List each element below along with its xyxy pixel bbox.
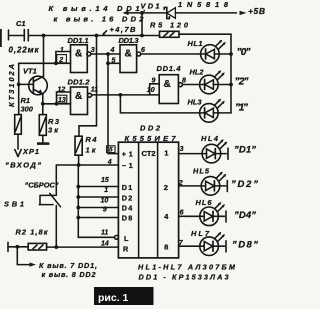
svg-text:9: 9 bbox=[152, 77, 156, 84]
annotation to pins 14 DD1 / 16 DD2 with arrow bbox=[49, 4, 146, 24]
wire DD2 out4 to HL6 bbox=[179, 215, 200, 217]
LED HL1 bbox=[188, 39, 232, 64]
wire DD1.4 pin9 tie bbox=[150, 84, 160, 95]
svg-text:300: 300 bbox=[21, 105, 34, 114]
svg-text:12: 12 bbox=[58, 86, 66, 93]
node D2 bbox=[76, 195, 80, 199]
node rail-R4 junction bbox=[95, 34, 99, 38]
wire R2/SB1 to R input bbox=[47, 246, 119, 248]
node pin5 junction bbox=[106, 61, 110, 65]
svg-text:6: 6 bbox=[180, 210, 184, 217]
svg-text:SB1: SB1 bbox=[4, 200, 24, 209]
wire to HL3 bbox=[120, 95, 199, 113]
svg-text:3к: 3к bbox=[48, 126, 59, 135]
wire DD2 out2 to HL5 bbox=[179, 185, 202, 187]
resistor R5 120 bbox=[150, 21, 189, 38]
node SB1 bottom junction bbox=[54, 245, 58, 249]
wire reset/load node to -1 input bbox=[56, 164, 118, 166]
svg-text:СТ2: СТ2 bbox=[142, 149, 156, 158]
node D8 bbox=[76, 216, 80, 220]
node pin1-pin2 tie bbox=[54, 61, 58, 65]
wire +4.7V rail bbox=[29, 35, 160, 37]
svg-text:К выв. 7 DD1,: К выв. 7 DD1, bbox=[39, 261, 97, 270]
wire base node N1 bbox=[19, 63, 71, 114]
LED HL6 bbox=[196, 198, 227, 226]
svg-text:0,22мк: 0,22мк bbox=[9, 46, 40, 55]
resistor R1 300 bbox=[15, 96, 34, 134]
svg-text:HL7: HL7 bbox=[191, 229, 210, 238]
wire DD2 out1 to HL4 bbox=[179, 153, 203, 155]
svg-text:&: & bbox=[75, 49, 82, 60]
node R2 left arm junction bbox=[15, 245, 19, 249]
svg-text:14: 14 bbox=[101, 240, 109, 247]
svg-text:HL4: HL4 bbox=[201, 134, 218, 143]
svg-text:R: R bbox=[123, 245, 129, 254]
svg-text:С1: С1 bbox=[16, 19, 26, 28]
svg-text:DD1.3: DD1.3 bbox=[119, 36, 140, 45]
capacitor C1 bbox=[9, 19, 40, 55]
svg-text:”D1”: ”D1” bbox=[234, 145, 256, 156]
node diode wire junction bbox=[140, 11, 144, 15]
svg-text:3: 3 bbox=[91, 47, 95, 54]
transistor VT1 КТ3102А bbox=[7, 64, 47, 107]
wire rail to R4 (pull-up branch) bbox=[79, 36, 97, 137]
node rail-diode junction bbox=[140, 34, 144, 38]
scan edge mark bbox=[0, 29, 2, 47]
gate DD1.4 (NAND) bbox=[147, 64, 186, 104]
node rail-collector junction bbox=[42, 34, 46, 38]
svg-text:2: 2 bbox=[58, 57, 63, 64]
svg-text:к выв. 8 DD2: к выв. 8 DD2 bbox=[42, 270, 96, 279]
resistor R2 1,8к bbox=[8, 228, 49, 252]
wire rail to collector VT1 bbox=[43, 36, 45, 77]
wire R5 to LED cathode rail bbox=[179, 34, 231, 113]
wire DD1.4 out to HL2 bbox=[182, 84, 199, 86]
svg-text:11: 11 bbox=[101, 230, 108, 237]
svg-text:1: 1 bbox=[60, 47, 64, 54]
wire DD2 out8 to HL7 bbox=[179, 245, 200, 247]
counter DD2 К555ИЕ7 bbox=[118, 124, 178, 258]
node D4 bbox=[76, 206, 80, 210]
LED HL3 bbox=[188, 97, 232, 122]
node emitter junction bbox=[41, 102, 45, 106]
wire DD1.3 out to HL1 bbox=[141, 53, 201, 55]
node D1 bbox=[76, 185, 80, 189]
svg-text:”СБРОС”: ”СБРОС” bbox=[25, 181, 59, 190]
wire DD1.1 out to DD1.3 in bbox=[91, 53, 120, 55]
svg-text:HL6: HL6 bbox=[196, 198, 213, 207]
svg-text:8: 8 bbox=[182, 78, 186, 85]
resistor R4 1к bbox=[75, 135, 97, 165]
node pin12-13 tie bbox=[55, 102, 59, 106]
svg-text:&: & bbox=[125, 49, 132, 60]
svg-text:рис. 1: рис. 1 bbox=[98, 292, 129, 304]
svg-text:”0”: ”0” bbox=[237, 47, 251, 58]
ground for R3 bbox=[37, 135, 49, 145]
svg-text:+4,7В: +4,7В bbox=[110, 25, 137, 34]
wire DD1.2 pin12 tie bbox=[57, 92, 71, 104]
svg-text:HL5: HL5 bbox=[193, 166, 210, 175]
svg-text:13: 13 bbox=[58, 97, 66, 104]
svg-text:DD1.4: DD1.4 bbox=[157, 64, 182, 73]
wire DD1.2 out to DD1.4 in bbox=[92, 94, 160, 96]
svg-text:6: 6 bbox=[141, 47, 145, 54]
svg-text:5: 5 bbox=[112, 57, 116, 64]
LED HL2 bbox=[190, 67, 232, 93]
svg-text:10: 10 bbox=[101, 197, 109, 204]
svg-text:11: 11 bbox=[91, 87, 98, 94]
wire DD1.1 pin1 tie bbox=[56, 52, 71, 64]
net +5V arrow bbox=[240, 6, 266, 16]
LED HL5 bbox=[193, 166, 227, 195]
node R4 bottom bbox=[77, 163, 81, 167]
wire count bus to +1 bbox=[108, 54, 118, 154]
svg-text:DD2: DD2 bbox=[140, 124, 161, 133]
svg-text:DD1.1: DD1.1 bbox=[68, 36, 89, 45]
svg-text:&: & bbox=[164, 79, 171, 90]
figure caption plate bbox=[94, 287, 154, 305]
D preset bus bbox=[78, 165, 118, 237]
svg-text:”2”: ”2” bbox=[235, 77, 249, 88]
push button SB1 bbox=[4, 165, 61, 247]
node base junction bbox=[17, 83, 21, 87]
svg-text:R2 1,8к: R2 1,8к bbox=[16, 228, 49, 237]
svg-text:К выв.14 DD1,: К выв.14 DD1, bbox=[49, 4, 146, 13]
svg-text:HL2: HL2 bbox=[190, 67, 205, 76]
diode VD1 1N5818 bbox=[141, 0, 237, 19]
svg-text:2: 2 bbox=[164, 183, 168, 192]
svg-text:HL1: HL1 bbox=[188, 39, 203, 48]
svg-text:9: 9 bbox=[103, 206, 107, 213]
wire emitter to DD1.2 inputs bbox=[43, 103, 71, 105]
svg-text:HL3: HL3 bbox=[188, 97, 203, 106]
svg-text:&: & bbox=[75, 91, 82, 102]
svg-text:10: 10 bbox=[147, 87, 155, 94]
node HL2 cathode junction bbox=[229, 83, 233, 87]
svg-text:1: 1 bbox=[104, 187, 108, 194]
svg-text:3: 3 bbox=[180, 146, 184, 153]
LED HL4 bbox=[201, 134, 228, 163]
svg-text:15: 15 bbox=[101, 177, 109, 184]
gate DD1.2 (NAND) bbox=[57, 78, 98, 115]
annotation to pins 7 DD1 / 8 DD2 with arrow bbox=[17, 247, 97, 279]
wire DD1.3 pin5 tie bbox=[108, 62, 120, 64]
gate DD1.3 (NAND) bbox=[110, 36, 146, 73]
svg-text:DD1.2: DD1.2 bbox=[68, 78, 91, 87]
svg-text:HL1-HL7 АЛ307БМ: HL1-HL7 АЛ307БМ bbox=[138, 263, 236, 272]
L input inversion circle bbox=[115, 235, 119, 239]
svg-text:”ВХОД”: ”ВХОД” bbox=[5, 161, 41, 170]
svg-text:”D4”: ”D4” bbox=[234, 210, 256, 221]
resistor R3 3к bbox=[39, 104, 60, 136]
svg-text:”1”: ”1” bbox=[235, 103, 248, 114]
connector XP1 input arrow bbox=[5, 134, 41, 169]
svg-text:ХР1: ХР1 bbox=[22, 147, 39, 156]
svg-text:VT1: VT1 bbox=[23, 67, 37, 76]
svg-text:5: 5 bbox=[109, 147, 113, 154]
svg-text:4: 4 bbox=[110, 47, 115, 54]
svg-text:1к: 1к bbox=[86, 145, 97, 154]
svg-text:L: L bbox=[124, 234, 129, 243]
node HL3 branch bbox=[119, 93, 123, 97]
wire diode drop to rail bbox=[141, 13, 143, 36]
node bus top bbox=[106, 52, 110, 56]
svg-text:+5В: +5В bbox=[248, 6, 265, 16]
node HL1 cathode junction bbox=[229, 52, 233, 56]
svg-text:4: 4 bbox=[107, 159, 112, 166]
svg-text:VD1: VD1 bbox=[141, 2, 160, 11]
pin number 5 (boxed) bbox=[107, 146, 115, 154]
LED HL7 bbox=[191, 229, 226, 256]
op-amp-style gate DD1.1 (NAND) bbox=[57, 36, 95, 73]
svg-text:8: 8 bbox=[164, 243, 168, 252]
